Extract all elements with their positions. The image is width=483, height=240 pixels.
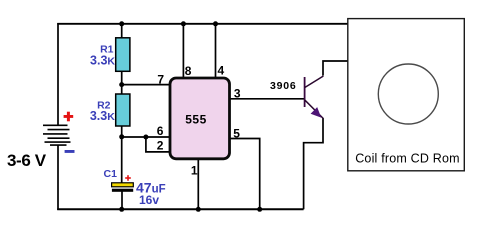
svg-text:8: 8 <box>185 64 192 78</box>
coil circle <box>378 64 438 124</box>
node junction R1/R2/pin7 <box>119 82 124 87</box>
capacitor C1 top plate <box>112 183 134 187</box>
battery minus sign <box>65 150 75 153</box>
svg-text:7: 7 <box>157 73 164 87</box>
node junction top rail / pin 8 <box>181 21 186 26</box>
battery B1 plates <box>43 125 71 145</box>
capacitor C1 bottom plate <box>112 189 133 192</box>
svg-text:1: 1 <box>191 164 198 178</box>
svg-text:6: 6 <box>157 124 164 138</box>
svg-text:555: 555 <box>185 112 207 126</box>
svg-text:3.3K: 3.3K <box>90 54 115 68</box>
node junction top rail / R1 <box>119 21 124 26</box>
capacitor C1 polarity plus <box>125 175 131 181</box>
wire battery top lead <box>57 23 59 126</box>
wire bottom ground rail <box>57 208 303 210</box>
wire battery bottom lead <box>57 145 59 210</box>
wire pin 8 lead <box>182 24 184 78</box>
svg-text:C1: C1 <box>104 168 118 180</box>
transistor Q1 emitter diagonal <box>305 100 324 119</box>
wire pin 5 lead to ground <box>229 139 260 210</box>
node junction C1 / ground rail <box>119 207 124 212</box>
wire resistor/capacitor branch vertical <box>121 24 123 184</box>
transistor Q1 collector diagonal <box>305 76 324 88</box>
svg-text:3: 3 <box>234 87 241 101</box>
wire capacitor bottom lead <box>121 191 123 209</box>
svg-text:3-6 V: 3-6 V <box>7 151 47 170</box>
resistor R1 body <box>116 38 130 72</box>
node junction pin5 / ground rail <box>257 207 262 212</box>
wire pin 7 lead <box>122 84 172 86</box>
svg-text:2: 2 <box>157 139 164 153</box>
svg-text:4: 4 <box>217 64 224 78</box>
node junction pin6/pin2 <box>143 135 148 140</box>
wire pin 1 lead to ground <box>197 158 199 209</box>
transistor Q1 base bar <box>304 77 306 107</box>
wire pin 2 branch <box>146 137 172 152</box>
resistor R2 body <box>116 94 130 126</box>
wire pin 6 lead <box>122 136 172 138</box>
wire collector to coil box <box>323 61 349 76</box>
op-amp/timer IC U1 555 body <box>170 78 230 159</box>
transistor Q1 emitter arrow <box>311 107 322 118</box>
battery plus sign <box>64 112 74 122</box>
svg-text:3906: 3906 <box>270 80 297 92</box>
coil box enclosure <box>348 19 465 171</box>
node junction pin1 / ground rail <box>196 207 201 212</box>
wire pin 3 lead to transistor base <box>229 98 304 100</box>
svg-text:Coil from CD Rom: Coil from CD Rom <box>355 151 460 165</box>
svg-text:16v: 16v <box>139 193 159 207</box>
wire emitter to ground rail <box>304 118 323 209</box>
wire pin 4 lead <box>215 24 217 78</box>
svg-text:5: 5 <box>233 127 240 141</box>
svg-text:3.3K: 3.3K <box>90 109 115 123</box>
node junction top rail / pin 4 <box>213 21 218 26</box>
wire top positive rail <box>57 23 348 25</box>
node junction R2/C1/pin6 <box>119 134 124 139</box>
